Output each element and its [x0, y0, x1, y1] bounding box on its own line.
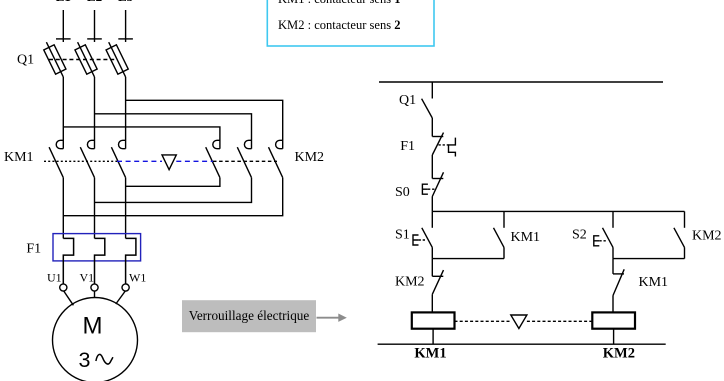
breaker Q1 mechanical link dashed [49, 59, 117, 61]
mechanical link dashed black right [213, 160, 277, 162]
contactor KM2 pole3 blade [269, 147, 283, 177]
contactor KM2 pole2 blade [237, 147, 251, 177]
svg-text:M: M [83, 313, 103, 340]
wire phase3 Q1 to KM1 [125, 77, 127, 149]
wire KM1 pole2 to F1 [94, 178, 96, 239]
wire L2 supply drop [94, 10, 96, 42]
control top rail [379, 81, 663, 83]
wire F1 to S0 [431, 155, 433, 179]
svg-text:F1: F1 [400, 139, 415, 154]
wire feed phase1 to KM2 pole1 [63, 127, 220, 149]
wire S2 to rejoin [612, 247, 614, 258]
contactor KM1 pole2 fixed contact [87, 140, 94, 148]
terminal bar L2 [87, 38, 102, 40]
terminal U1 circle [60, 284, 67, 291]
svg-text:L3: L3 [118, 0, 134, 4]
coil interlock dashed left [455, 320, 511, 322]
mechanical link dashed blue left [117, 160, 162, 162]
breaker Q1 pole 2 fuse body [75, 45, 97, 74]
verrouillage electrique box [182, 300, 316, 332]
relay F1 element phase3 [126, 238, 136, 284]
rejoin wire S2 KM2 [613, 258, 685, 260]
svg-text:Q1: Q1 [399, 93, 416, 108]
motor M1 circle [53, 298, 138, 381]
svg-text:KM2: KM2 [395, 275, 425, 290]
wire phase1 Q1 to KM1 [62, 77, 64, 149]
wire KM1 pole1 to F1 [62, 178, 64, 239]
svg-text:V1: V1 [80, 271, 95, 285]
svg-text:KM1 : contacteur sens 1: KM1 : contacteur sens 1 [278, 0, 401, 6]
wire KM2 aux to rejoin [684, 247, 686, 258]
wire branch to KM2 aux [684, 211, 686, 227]
motor AC wave symbol [96, 354, 113, 364]
contactor KM1 pole1 blade [49, 147, 63, 177]
button S2 actuator link dashed [599, 240, 607, 242]
svg-text:KM1: KM1 [4, 150, 34, 165]
wire L3 supply drop [125, 10, 127, 42]
breaker Q1 pole 3 blade [109, 42, 126, 77]
svg-text:3: 3 [79, 348, 91, 372]
button S1 blade [422, 228, 433, 248]
coil interlock triangle [511, 315, 527, 329]
wire rail to Q1 aux [431, 82, 433, 99]
contact KM1 interlock blade [613, 269, 624, 295]
wire branch to S2 [612, 211, 614, 227]
coil interlock dashed right [527, 320, 592, 322]
wire L1 supply drop [62, 10, 64, 42]
coil KM1 [412, 312, 455, 328]
relay F1 element phase1 [63, 238, 73, 284]
svg-text:S0: S0 [395, 185, 410, 200]
contactor KM1 pole3 blade [111, 147, 125, 177]
button S2 actuator E [594, 236, 600, 246]
control bottom rail [378, 343, 666, 345]
contactor KM2 pole1 blade [206, 147, 220, 177]
contact KM2 interlock fixed tick [432, 275, 443, 277]
wire rejoin to KM2 interlock [431, 259, 433, 277]
motor lead V1 [94, 291, 96, 297]
svg-text:W1: W1 [129, 271, 146, 285]
wire coil KM2 to rail [613, 329, 615, 345]
coil KM2 [592, 312, 635, 328]
svg-text:KM2: KM2 [295, 150, 325, 165]
svg-text:Verrouillage électrique: Verrouillage électrique [189, 309, 310, 324]
wire feed phase3 to KM2 pole3 [126, 100, 283, 148]
svg-text:S1: S1 [395, 228, 410, 243]
svg-text:Q1: Q1 [17, 53, 34, 68]
motor lead W1 [116, 291, 125, 304]
wire phase2 Q1 to KM1 [94, 77, 96, 149]
contactor KM1 pole1 fixed contact [56, 140, 63, 148]
svg-text:L1: L1 [56, 0, 71, 4]
svg-text:KM2 : contacteur sens 2: KM2 : contacteur sens 2 [278, 17, 401, 32]
contact KM1 aux blade [494, 228, 505, 248]
wire branch to KM1 aux [503, 211, 505, 227]
wire KM1 interlock to coil KM2 [612, 296, 614, 313]
wire KM1 pole3 to F1 [125, 178, 127, 239]
breaker Q1 pole 1 blade [46, 42, 63, 77]
contactor KM1 pole2 blade [80, 147, 94, 177]
button S0 fixed tick [432, 178, 443, 180]
verrouillage arrow [317, 314, 347, 322]
button S0 actuator E [422, 184, 428, 194]
contact F1 fixed tick [432, 136, 443, 138]
svg-text:F1: F1 [26, 242, 41, 257]
contactor KM2 pole1 fixed contact [213, 140, 220, 148]
legend box [267, 0, 434, 46]
breaker Q1 pole 3 fuse body [106, 45, 128, 74]
wire Q1 aux to F1 contact [431, 118, 433, 137]
mechanical link dotted black left [44, 160, 117, 162]
contact Q1 aux blade [422, 99, 433, 118]
relay F1 box [53, 234, 141, 261]
contactor KM1 pole3 fixed contact [119, 140, 126, 148]
svg-text:KM2: KM2 [692, 229, 722, 244]
terminal W1 circle [122, 284, 129, 291]
button S1 actuator E [413, 235, 419, 245]
contact KM1 interlock fixed tick [613, 273, 624, 275]
svg-text:KM1: KM1 [414, 346, 446, 362]
wire KM2 pole2 to phase2 node [95, 178, 252, 203]
wire rejoin to KM1 interlock [612, 259, 614, 274]
svg-text:KM2: KM2 [603, 346, 635, 362]
svg-text:S2: S2 [572, 228, 587, 243]
contact KM2 aux blade [674, 228, 685, 248]
relay F1 trip symbol [449, 138, 456, 157]
button S2 blade [603, 228, 614, 248]
button S1 actuator link dashed [419, 239, 427, 241]
terminal bar L3 [118, 38, 133, 40]
wire coil KM1 to rail [432, 329, 434, 345]
button S0 blade [432, 172, 443, 196]
button S0 actuator link dashed [428, 188, 435, 190]
terminal bar L1 [56, 38, 71, 40]
wire feed phase2 to KM2 pole2 [95, 114, 252, 149]
wire branch to S1 [431, 211, 433, 227]
svg-text:U1: U1 [47, 271, 62, 285]
svg-text:KM1: KM1 [511, 230, 541, 245]
svg-text:L2: L2 [87, 0, 102, 4]
breaker Q1 pole 1 fuse body [44, 45, 66, 74]
wire S1 to rejoin [431, 247, 433, 258]
mechanical link dashed blue right [176, 160, 213, 162]
control branch rail [432, 210, 684, 212]
wire KM2 pole3 to phase1 node [63, 178, 282, 216]
terminal V1 circle [91, 284, 98, 291]
wire S0 to branch rail [431, 197, 433, 212]
contact F1 blade [432, 133, 443, 155]
svg-text:KM1: KM1 [639, 275, 669, 290]
contactor KM2 pole2 fixed contact [244, 140, 251, 148]
motor lead U1 [64, 291, 74, 305]
contact KM2 interlock blade [432, 270, 443, 294]
wire KM2 interlock to coil KM1 [431, 294, 433, 312]
contactor KM2 pole3 fixed contact [276, 140, 283, 148]
breaker Q1 pole 2 blade [78, 42, 95, 77]
wire KM2 pole1 to phase3 node [126, 178, 220, 187]
relay F1 element phase2 [95, 238, 105, 284]
wire KM1 aux to rejoin [503, 247, 505, 258]
interlock triangle power [162, 155, 176, 170]
rejoin wire S1 KM1 [432, 258, 504, 260]
contact F1 trip link dashed [439, 144, 449, 146]
